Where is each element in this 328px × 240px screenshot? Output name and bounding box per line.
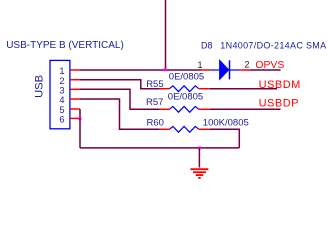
- resistor R55 zigzag body: [169, 86, 198, 92]
- diode D8 cathode bar: [229, 60, 231, 79]
- junction node ground rail: [198, 147, 201, 150]
- wire pin6 down to bottom rail: [79, 118, 81, 147]
- svg-text:R60: R60: [147, 117, 164, 128]
- svg-text:100K/0805: 100K/0805: [203, 118, 249, 129]
- svg-text:USBDM: USBDM: [259, 79, 301, 91]
- ground symbol bar 1: [190, 168, 208, 170]
- connector pin 2 stub: [70, 79, 80, 81]
- svg-text:OPVS: OPVS: [255, 60, 284, 71]
- wire diode cathode to OPVS: [250, 69, 281, 71]
- wire pin5 down to pin6: [79, 109, 81, 118]
- connector pin 5 stub: [70, 108, 80, 110]
- svg-text:D8: D8: [201, 40, 213, 50]
- ground symbol bar 3: [196, 174, 204, 176]
- wire R55 to USBDM: [210, 88, 277, 90]
- connector pin 4 stub: [70, 98, 80, 100]
- wire riser to top edge: [165, 0, 167, 70]
- junction node riser/pin1: [164, 68, 167, 71]
- ground stem wire: [198, 148, 200, 168]
- wire pin4 to R60: [80, 99, 160, 129]
- wire pin3 to R57: [80, 89, 160, 109]
- ground symbol bar 4: [198, 177, 201, 179]
- resistor R57 right pin (red): [199, 108, 210, 110]
- resistor R57 zigzag body: [169, 106, 198, 112]
- resistor R55 right pin (red): [199, 88, 210, 90]
- svg-text:1: 1: [59, 66, 64, 76]
- wire bottom ground rail: [80, 147, 239, 149]
- wire pin2 to R55: [80, 80, 160, 89]
- svg-text:0E/0805: 0E/0805: [168, 92, 203, 103]
- svg-text:R57: R57: [146, 97, 163, 108]
- resistor R60 right pin (red): [199, 128, 210, 130]
- svg-text:1N4007/DO-214AC SMA: 1N4007/DO-214AC SMA: [220, 40, 326, 50]
- resistor R57 left pin (red): [160, 108, 170, 110]
- wire pin1 to diode anode: [80, 69, 201, 71]
- svg-text:USBDP: USBDP: [259, 98, 299, 110]
- diode D8 cathode lead (blue): [230, 69, 241, 71]
- svg-text:R55: R55: [146, 79, 163, 90]
- resistor R55 left pin (red): [160, 88, 170, 90]
- wire R57 to USBDP: [210, 108, 281, 110]
- resistor R60 left pin (red): [160, 128, 170, 130]
- svg-text:USB-TYPE B (VERTICAL): USB-TYPE B (VERTICAL): [6, 40, 124, 51]
- connector pin 6 stub: [70, 117, 80, 119]
- connector pin 3 stub: [70, 88, 80, 90]
- svg-text:3: 3: [59, 86, 64, 96]
- svg-text:USB: USB: [33, 75, 45, 98]
- svg-text:4: 4: [59, 95, 64, 105]
- svg-text:2: 2: [59, 76, 64, 86]
- svg-text:6: 6: [59, 115, 64, 125]
- connector J1 USB-TYPE B body: [50, 60, 70, 128]
- resistor R60 zigzag body: [169, 126, 198, 132]
- junction node pin5/pin6: [79, 117, 82, 120]
- diode D8 pin 1 (anode lead, red): [201, 69, 211, 71]
- diode D8 triangle body: [220, 60, 229, 79]
- svg-text:0E/0805: 0E/0805: [169, 72, 204, 83]
- connector pin 1 stub: [70, 69, 80, 71]
- svg-text:1: 1: [197, 60, 202, 70]
- svg-text:2: 2: [244, 60, 249, 70]
- wire R60 to bottom rail: [210, 129, 240, 148]
- diode D8 pin 2 (cathode lead, red): [240, 69, 250, 71]
- ground symbol bar 2: [193, 171, 206, 173]
- diode D8 anode lead (blue): [210, 69, 220, 71]
